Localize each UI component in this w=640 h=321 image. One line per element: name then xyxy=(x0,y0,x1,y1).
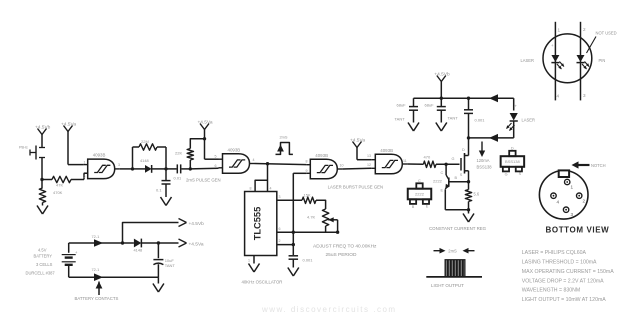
svg-text:6: 6 xyxy=(215,164,217,168)
svg-text:TANT: TANT xyxy=(395,117,406,122)
svg-text:5.6: 5.6 xyxy=(474,191,480,196)
svg-text:4: 4 xyxy=(557,94,560,99)
svg-text:2mS: 2mS xyxy=(280,135,288,140)
svg-text:6: 6 xyxy=(279,227,281,231)
svg-text:68uF: 68uF xyxy=(397,103,407,108)
svg-text:BOTTOM VIEW: BOTTOM VIEW xyxy=(546,226,610,235)
svg-text:TLC555: TLC555 xyxy=(253,207,263,241)
svg-text:ADJUST FREQ TO 40.00KHz: ADJUST FREQ TO 40.00KHz xyxy=(313,243,377,249)
svg-text:+4.5Va: +4.5Va xyxy=(350,138,365,144)
svg-text:MAX OPERATING CURRENT = 150mA: MAX OPERATING CURRENT = 150mA xyxy=(522,269,614,275)
svg-text:470: 470 xyxy=(424,155,431,160)
svg-text:G: G xyxy=(505,172,508,176)
svg-text:1: 1 xyxy=(571,185,574,190)
svg-text:TANT: TANT xyxy=(165,263,176,268)
svg-text:LASER: LASER xyxy=(521,58,534,63)
svg-text:47K: 47K xyxy=(56,183,63,188)
svg-text:LASER BURST PULSE GEN: LASER BURST PULSE GEN xyxy=(328,184,384,189)
svg-text:+: + xyxy=(551,43,554,48)
svg-text:4093B: 4093B xyxy=(228,147,241,152)
svg-text:9: 9 xyxy=(306,169,308,173)
svg-text:BATTERY CONTACTS: BATTERY CONTACTS xyxy=(75,296,119,301)
svg-text:5: 5 xyxy=(215,155,217,159)
svg-text:D: D xyxy=(511,146,514,150)
svg-text:22K: 22K xyxy=(175,151,182,156)
svg-text:1: 1 xyxy=(84,161,86,165)
svg-text:11: 11 xyxy=(403,159,407,163)
svg-text:4: 4 xyxy=(253,158,255,162)
svg-text:4: 4 xyxy=(557,200,560,205)
svg-text:3: 3 xyxy=(118,163,120,167)
svg-text:NOT USED: NOT USED xyxy=(596,31,617,36)
svg-text:3: 3 xyxy=(583,93,586,98)
svg-text:WAVELENGTH = 830NM: WAVELENGTH = 830NM xyxy=(522,288,580,294)
svg-text:4.5V: 4.5V xyxy=(38,248,47,253)
svg-text:2: 2 xyxy=(583,27,586,32)
svg-text:4093B: 4093B xyxy=(380,148,393,153)
svg-text:4148: 4148 xyxy=(134,248,143,253)
svg-text:S: S xyxy=(519,172,522,176)
svg-text:4093B: 4093B xyxy=(93,153,106,158)
svg-text:www. discovercircuits .com: www. discovercircuits .com xyxy=(261,305,397,314)
svg-text:2mS: 2mS xyxy=(448,249,457,254)
svg-text:8: 8 xyxy=(250,187,252,191)
svg-text:DURCELL #387: DURCELL #387 xyxy=(26,271,56,276)
svg-text:+4.5Vb: +4.5Vb xyxy=(35,125,51,131)
svg-text:PB-E: PB-E xyxy=(19,146,28,150)
svg-text:PIN: PIN xyxy=(599,58,606,63)
svg-text:0.001: 0.001 xyxy=(303,258,314,263)
svg-text:2: 2 xyxy=(279,239,281,243)
svg-text:CONSTANT CURRENT REG: CONSTANT CURRENT REG xyxy=(429,226,487,231)
svg-text:25uS PERIOD: 25uS PERIOD xyxy=(326,252,357,258)
svg-text:22M: 22M xyxy=(141,139,149,144)
svg-text:BSS138: BSS138 xyxy=(505,159,520,164)
svg-text:1: 1 xyxy=(248,259,250,263)
svg-text:13: 13 xyxy=(367,154,371,158)
svg-text:BATTERY: BATTERY xyxy=(34,254,53,259)
svg-text:12: 12 xyxy=(367,163,371,167)
svg-text:120mA: 120mA xyxy=(477,158,490,163)
svg-text:+4.5Va: +4.5Va xyxy=(198,120,213,126)
svg-text:8: 8 xyxy=(306,160,308,164)
svg-text:C: C xyxy=(441,171,444,175)
svg-text:S: S xyxy=(460,173,463,177)
svg-text:4.7K: 4.7K xyxy=(307,214,316,219)
svg-text:0.1: 0.1 xyxy=(156,188,162,193)
svg-text:+4.5Vb: +4.5Vb xyxy=(434,72,450,78)
svg-text:D: D xyxy=(462,148,465,152)
svg-text:3 CELLS: 3 CELLS xyxy=(36,262,53,267)
svg-text:10: 10 xyxy=(340,164,344,168)
svg-text:LASING THRESHOLD = 100mA: LASING THRESHOLD = 100mA xyxy=(522,260,597,266)
svg-text:LASER: LASER xyxy=(522,118,535,123)
svg-text:2222: 2222 xyxy=(415,192,425,197)
svg-text:+4.5Va: +4.5Va xyxy=(189,242,204,248)
svg-text:4: 4 xyxy=(270,187,272,191)
svg-text:LIGHT OUTPUT = 10mW AT 120mA: LIGHT OUTPUT = 10mW AT 120mA xyxy=(522,297,606,303)
svg-text:1: 1 xyxy=(558,28,561,33)
svg-text:2mS PULSE GEN: 2mS PULSE GEN xyxy=(186,177,221,182)
svg-text:470K: 470K xyxy=(53,190,63,195)
svg-text:2: 2 xyxy=(583,199,586,204)
svg-text:40KHz OSCILLATOR: 40KHz OSCILLATOR xyxy=(242,280,283,285)
svg-text:+4.5Va: +4.5Va xyxy=(61,122,76,128)
svg-text:G: G xyxy=(452,157,455,161)
svg-text:0.01: 0.01 xyxy=(174,176,183,181)
svg-text:VOLTAGE DROP = 2.2V AT 120mA: VOLTAGE DROP = 2.2V AT 120mA xyxy=(522,278,604,284)
svg-text:3: 3 xyxy=(571,212,574,217)
svg-text:15K: 15K xyxy=(304,193,311,198)
svg-text:LASER = PHILIPS CQL60A: LASER = PHILIPS CQL60A xyxy=(522,250,587,256)
svg-text:4148: 4148 xyxy=(140,158,149,163)
svg-text:NOTCH: NOTCH xyxy=(591,163,606,168)
svg-text:2222: 2222 xyxy=(433,179,443,184)
svg-text:TANT: TANT xyxy=(448,116,459,121)
svg-text:0.001: 0.001 xyxy=(475,118,486,123)
svg-text:LIGHT OUTPUT: LIGHT OUTPUT xyxy=(431,283,464,288)
svg-text:68uF: 68uF xyxy=(425,103,435,108)
svg-text:2: 2 xyxy=(84,175,86,179)
svg-text:BSS138: BSS138 xyxy=(477,164,493,169)
svg-text:4093B: 4093B xyxy=(315,153,328,158)
svg-text:3: 3 xyxy=(279,195,281,199)
svg-text:C: C xyxy=(418,179,421,183)
svg-text:72-1: 72-1 xyxy=(92,234,100,239)
svg-text:72-1: 72-1 xyxy=(92,267,100,272)
svg-text:+4.5Vb: +4.5Vb xyxy=(189,221,205,227)
